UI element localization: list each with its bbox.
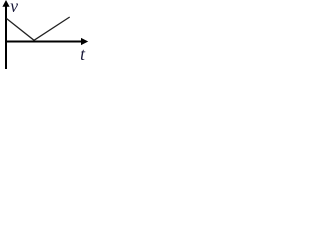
svg-text:v: v xyxy=(10,0,18,16)
